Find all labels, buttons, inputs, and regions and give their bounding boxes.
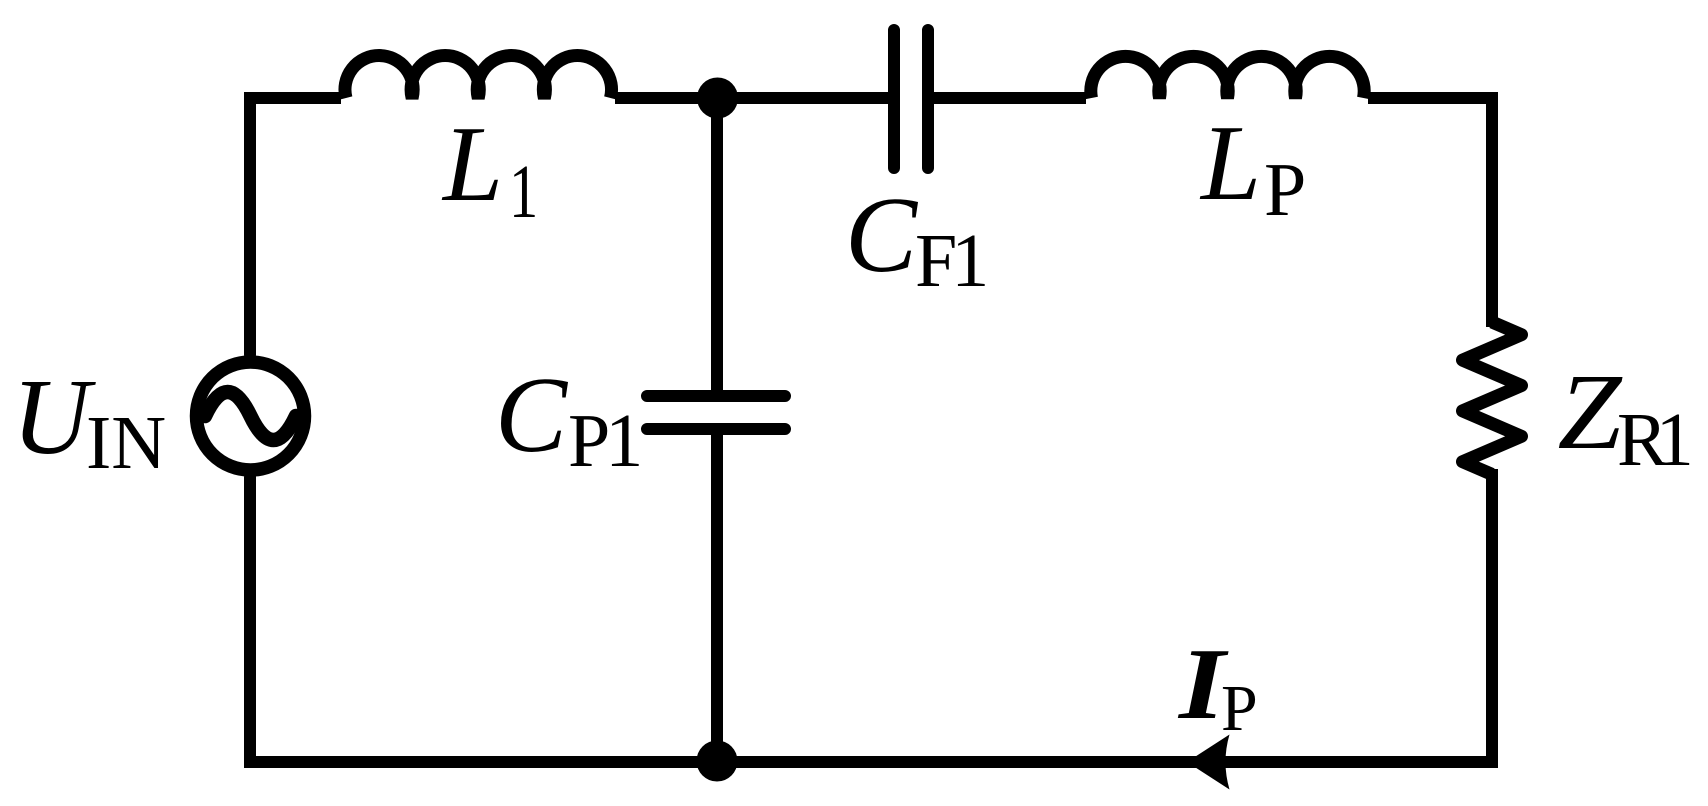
wire: left vertical (source to top-left corner) and top wire to L1	[250, 98, 341, 356]
capacitor CP1	[647, 396, 785, 429]
svg-text:L: L	[441, 105, 503, 224]
junction dot (top node)	[697, 78, 738, 119]
junction dot (bottom node)	[697, 741, 738, 782]
wire: top between CF1 and LP	[934, 92, 1086, 104]
source UIN: circle	[197, 362, 305, 470]
current arrow IP (pointing left)	[1187, 735, 1230, 790]
wire: top-right corner down to resistor	[1368, 98, 1492, 327]
svg-text:C: C	[495, 356, 569, 475]
inductor LP	[1091, 56, 1364, 98]
source UIN: sine wave	[205, 392, 296, 440]
svg-text:P: P	[1221, 672, 1258, 745]
svg-text:Z: Z	[1558, 353, 1623, 472]
svg-text:L: L	[1199, 104, 1261, 223]
wire: top between L1 and CF1	[615, 92, 888, 104]
wire: middle vertical upper (top dot to CP1)	[711, 98, 723, 390]
svg-text:P: P	[1264, 148, 1306, 232]
svg-text:IN: IN	[86, 401, 166, 485]
svg-text:F1: F1	[915, 219, 989, 303]
wire: right vertical below resistor, bottom wire to bottom dot	[717, 469, 1492, 762]
wire: middle vertical lower (CP1 to bottom dot)	[711, 435, 723, 762]
wire: bottom-left segment and left vertical up to source	[250, 477, 717, 763]
capacitor CF1	[894, 30, 928, 168]
resistor ZR1	[1463, 322, 1522, 474]
svg-text:C: C	[845, 176, 919, 295]
svg-text:U: U	[12, 358, 96, 477]
svg-text:P1: P1	[568, 399, 643, 483]
svg-text:1: 1	[509, 150, 538, 234]
inductor L1	[345, 56, 612, 98]
svg-text:R1: R1	[1617, 398, 1694, 482]
